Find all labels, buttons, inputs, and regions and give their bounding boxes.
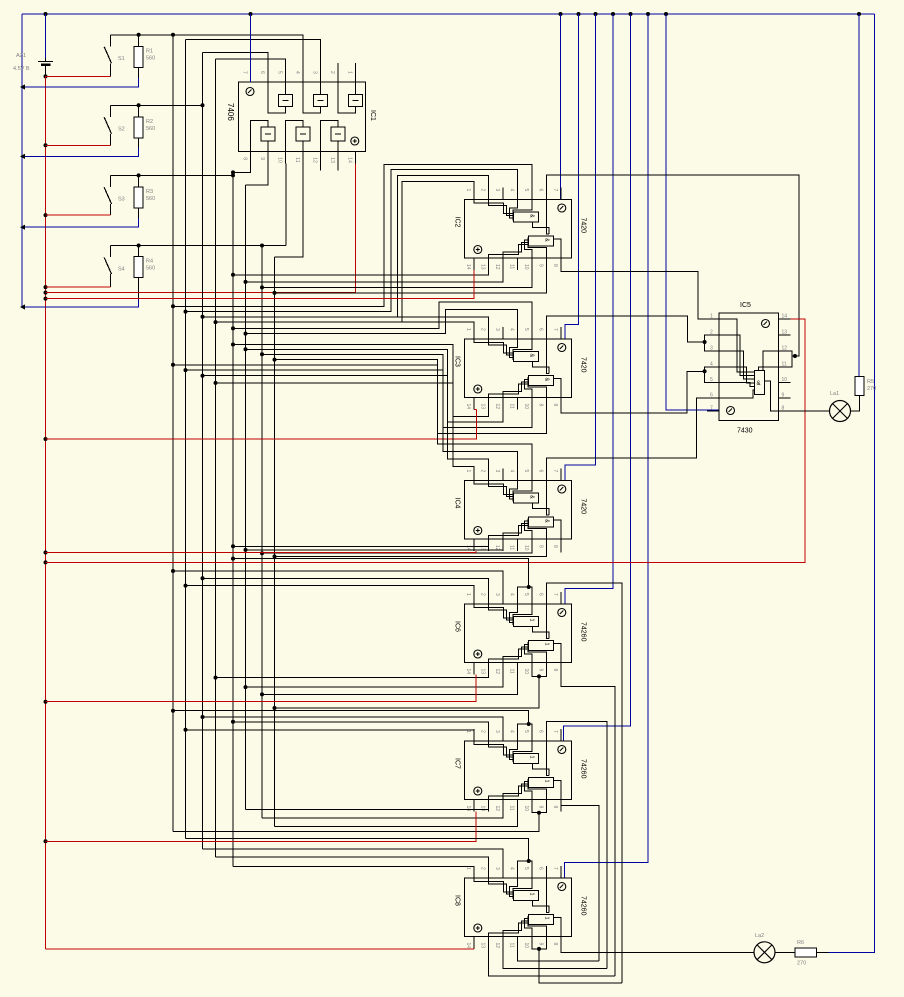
IC2 gate A (513, 212, 538, 222)
svg-text:2: 2 (479, 593, 485, 596)
wire: S3 red to battery bus (46, 214, 111, 216)
node: S4 rail junction W7 (260, 244, 264, 248)
svg-text:4: 4 (508, 470, 514, 473)
wire: IC4 bottom feed pin13 (233, 546, 488, 551)
svg-text:5: 5 (710, 377, 713, 383)
svg-text:12: 12 (494, 669, 500, 675)
svg-text:4: 4 (294, 71, 300, 74)
wire: IC1 pin8 jog to W5 (233, 163, 251, 172)
IC5 gate (755, 371, 765, 395)
wire: IC8 pins9/10 tie from IC6 pin8 (532, 948, 547, 950)
switch S1 (110, 35, 112, 47)
svg-text:&: & (528, 354, 534, 358)
wire: IC8 top feed pin1 (W5 end) (233, 867, 474, 879)
svg-text:S2: S2 (118, 126, 125, 132)
wire: IC8 pin14 red (473, 948, 475, 951)
svg-text:14: 14 (465, 404, 471, 410)
wire: IC7 bottom feed pin13 (W6 end) (246, 810, 489, 812)
IC1 power markers (246, 88, 254, 96)
wire: IC8 top feed pin2 (W4 end) (216, 857, 489, 878)
node: S1 rail bundle junction (171, 33, 175, 37)
IC1 inverter (296, 127, 310, 141)
wire: red battery bus vertical (45, 76, 47, 949)
wire: IC2 top feed 3 (W3) extends to IC3 pin2 (203, 176, 489, 317)
wire: IC6 bottom feed pin11 (262, 675, 517, 695)
svg-text:1: 1 (543, 780, 549, 783)
wire: R5 to La1 (851, 396, 860, 412)
resistor R2 (138, 105, 140, 117)
IC8 power markers (558, 883, 566, 891)
wire: R4 bottom blue return (22, 298, 139, 307)
svg-text:12: 12 (494, 806, 500, 812)
svg-text:1: 1 (465, 470, 471, 473)
svg-text:7: 7 (242, 71, 248, 74)
svg-text:13: 13 (479, 806, 485, 812)
IC2 gate B (528, 236, 553, 246)
svg-text:1: 1 (465, 867, 471, 870)
svg-text:10: 10 (523, 404, 529, 410)
wire: IC2 top feed 4 (W4) (216, 181, 474, 322)
wire: IC5 pins 11/12 tie (791, 351, 793, 367)
IC8 gate A (513, 891, 538, 901)
resistor R1 (138, 35, 140, 47)
svg-text:14: 14 (782, 314, 788, 320)
wire: IC4 top feed pin5 (173, 365, 532, 481)
IC6 power markers (558, 609, 566, 617)
wire: red bottom run to IC8 pin14 (46, 948, 474, 950)
svg-text:1: 1 (528, 756, 534, 759)
svg-text:&: & (528, 214, 534, 218)
svg-text:12: 12 (312, 157, 318, 163)
svg-text:8: 8 (782, 406, 785, 412)
wire: IC2 pin14 red (46, 270, 474, 299)
svg-text:1: 1 (543, 643, 549, 646)
wire: IC3 bottom feed pin12 (246, 349, 503, 422)
svg-text:IC5: IC5 (740, 302, 751, 309)
svg-text:1: 1 (710, 314, 713, 320)
wire: bundle W8 (274, 257, 276, 827)
wire: IC2 bottom feed pin9 to W8 (275, 270, 547, 293)
svg-text:6: 6 (537, 867, 543, 870)
node: S2 rail junction W3 (201, 103, 205, 107)
svg-text:4: 4 (508, 730, 514, 733)
svg-text:11: 11 (782, 362, 787, 368)
node: blue bus junction (20, 154, 25, 159)
wire: IC7 top feed pin2 (233, 722, 488, 741)
IC IC1 7406 body (239, 82, 366, 151)
svg-text:6: 6 (537, 593, 543, 596)
IC5 pin stubs (707, 319, 791, 411)
node: S3 rail junction W5 (231, 173, 235, 177)
wire: IC1 pin6 to W3 top (203, 52, 269, 70)
IC7 pin stubs (474, 729, 561, 812)
svg-text:8: 8 (552, 806, 558, 809)
svg-text:74260: 74260 (580, 896, 587, 916)
svg-text:11: 11 (508, 806, 514, 811)
svg-text:13: 13 (479, 264, 485, 270)
wire: IC3 top feed pin1 (tap of IC2 feed4) (402, 322, 474, 339)
switch S3 (110, 175, 112, 187)
wire: blue bus 7 to IC5 pin7 (666, 14, 719, 410)
svg-text:La1: La1 (830, 391, 839, 397)
IC8 pin numbers (465, 867, 558, 948)
wire: IC2 top feed 2 (W2) (186, 170, 518, 312)
svg-text:10: 10 (277, 157, 283, 163)
svg-text:13: 13 (782, 330, 788, 336)
svg-text:14: 14 (465, 264, 471, 270)
wire: IC4 top feed pin4 (186, 370, 518, 480)
wire: blue bus 2 to IC3 pin7 (565, 14, 579, 339)
wire: blue bus 1 to IC2 pin7 (560, 14, 562, 200)
svg-text:S4: S4 (118, 267, 125, 273)
wire: IC3 top feed pin5 (from W5 line) (233, 302, 532, 339)
svg-text:560: 560 (146, 196, 155, 202)
node: blue bus junction (20, 84, 25, 89)
svg-text:5: 5 (523, 189, 529, 192)
svg-text:AZ1: AZ1 (16, 53, 26, 59)
svg-text:9: 9 (537, 806, 543, 809)
wire: IC3 bottom feed pin9 (275, 360, 547, 434)
node: R3 top junction (137, 173, 141, 177)
svg-text:6: 6 (537, 328, 543, 331)
IC6 gate B (528, 641, 553, 651)
svg-text:&: & (757, 381, 761, 387)
svg-text:6: 6 (537, 189, 543, 192)
svg-text:4.5V B: 4.5V B (13, 66, 30, 72)
svg-text:7430: 7430 (737, 428, 753, 435)
IC2 pin numbers (465, 189, 558, 270)
wire: S4 red to battery bus (46, 286, 111, 288)
wire: bundle W6 (245, 185, 247, 810)
wire: R3 bottom blue return (22, 218, 139, 227)
IC7 pin numbers (465, 730, 558, 811)
IC4 pin stubs (474, 469, 561, 552)
svg-text:5: 5 (523, 593, 529, 596)
IC7 gate A (513, 754, 538, 764)
IC1 inverter (349, 95, 363, 107)
wire: blue far right bus to R6 (829, 14, 875, 952)
IC3 gate A (513, 352, 538, 362)
resistor R5 (855, 376, 864, 395)
svg-text:3: 3 (494, 730, 500, 733)
svg-text:9: 9 (259, 157, 265, 160)
wire: IC8 bottom feed pin12 from IC7 pin6 (503, 949, 607, 969)
IC1 inverter (261, 127, 275, 141)
svg-text:12: 12 (494, 404, 500, 410)
svg-text:3: 3 (494, 189, 500, 192)
svg-text:7: 7 (552, 470, 558, 473)
svg-text:12: 12 (494, 943, 500, 949)
IC8 pin stubs (474, 866, 561, 949)
wire: IC5 pin8 to lamp La1 (791, 410, 830, 412)
wire: IC6 pins4/5 tie feed (517, 587, 532, 592)
wire: IC8 pin8 output to La2 (561, 949, 754, 953)
IC5 power markers (762, 320, 770, 328)
wire: IC2 pin6 output loop to IC5 pins 11/12 (546, 175, 799, 356)
svg-text:3: 3 (710, 346, 713, 352)
lamp La2 (754, 942, 775, 963)
svg-text:12: 12 (494, 264, 500, 270)
IC1 pin stubs (251, 63, 356, 170)
svg-text:1: 1 (465, 730, 471, 733)
wire: IC7 pin6 output loop (546, 722, 607, 969)
wire: bundle W7 (261, 246, 263, 819)
svg-text:IC1: IC1 (369, 110, 376, 121)
node: blue bus junction (20, 225, 25, 230)
svg-text:10: 10 (523, 943, 529, 949)
svg-text:4: 4 (508, 189, 514, 192)
wire: IC3 top feed pin2 (tap of IC2 feed3) (398, 317, 489, 339)
IC1 inverter (314, 95, 328, 107)
wire: IC7 pin14 red (46, 812, 477, 842)
wire: IC1 pin5 to W4 top (216, 59, 286, 70)
svg-text:8: 8 (552, 545, 558, 548)
svg-text:S3: S3 (118, 196, 125, 202)
svg-text:R1: R1 (146, 49, 153, 55)
svg-text:IC7: IC7 (454, 758, 461, 769)
svg-text:12: 12 (782, 346, 788, 352)
svg-text:2: 2 (479, 730, 485, 733)
svg-text:4: 4 (508, 328, 514, 331)
svg-text:&: & (528, 495, 534, 499)
svg-text:8: 8 (552, 404, 558, 407)
wire: blue bus 6 to IC8 pin7 (565, 14, 648, 878)
wire: blue bus 3 to IC4 pin7 (565, 14, 596, 481)
wire: IC3 top feed pin4 (from W6 line) (246, 310, 518, 339)
wire: IC1 pin10 down to S4 rail (285, 163, 287, 245)
IC IC6 74260 body (464, 604, 571, 663)
node: R2 top junction (137, 103, 141, 107)
IC IC5 7430 body (719, 313, 779, 421)
svg-text:3: 3 (494, 470, 500, 473)
svg-text:4: 4 (508, 593, 514, 596)
IC IC8 74260 body (464, 878, 571, 937)
svg-text:R3: R3 (146, 189, 153, 195)
svg-text:5: 5 (523, 730, 529, 733)
wire: La2 to R6 (775, 951, 795, 953)
wire: IC1 pin11 jog to W8 (275, 163, 304, 257)
node: R1 top junction (137, 33, 141, 37)
wire: IC3 pin6 output to IC5 pins 2/3 (546, 316, 704, 342)
svg-text:9: 9 (537, 545, 543, 548)
IC7 gate B (528, 778, 553, 788)
svg-text:S1: S1 (118, 56, 125, 62)
svg-text:5: 5 (523, 328, 529, 331)
wire: IC1 pin9 jog to W6 (246, 163, 269, 185)
resistor R3 (138, 175, 140, 187)
svg-text:7: 7 (710, 406, 713, 412)
svg-text:9: 9 (782, 393, 785, 399)
svg-text:7420: 7420 (580, 499, 587, 515)
wire: IC7 pins9/10 tie (W1 end) (532, 812, 547, 813)
battery AZ1 (45, 14, 47, 58)
svg-text:10: 10 (523, 806, 529, 812)
wire: S2 rail extension to W3 (111, 104, 203, 106)
wire: IC6 bottom feed pin12 (246, 675, 503, 688)
svg-text:7420: 7420 (580, 218, 587, 234)
svg-text:7: 7 (552, 593, 558, 596)
svg-text:&: & (543, 378, 549, 382)
wire: IC7 top feed pin3 (203, 717, 503, 741)
wire: IC8 pins4/5 tie feed (W2 end) (517, 861, 532, 866)
wire: IC2 pin8 output to IC5 pin1 (561, 270, 719, 319)
wire: bundle W4 (215, 59, 217, 857)
svg-text:74260: 74260 (580, 622, 587, 642)
IC4 gate B (528, 517, 553, 527)
wire: R6 to blue bus (817, 951, 829, 953)
IC IC2 7420 body (464, 200, 571, 259)
wire: IC4 bottom feed pin10 (262, 551, 532, 553)
wire: IC6 bottom feed pin13 (216, 675, 489, 678)
wire: left blue bus vertical (21, 14, 23, 307)
IC3 pin stubs (474, 327, 561, 410)
wire: IC6 top feed pin2 (203, 578, 489, 604)
svg-text:3: 3 (494, 593, 500, 596)
IC5 gate input nest (719, 319, 755, 372)
node: R4 top junction (137, 244, 141, 248)
svg-text:R4: R4 (146, 259, 153, 265)
wire: IC8 bottom feed pin11 from IC7 pin8 (517, 949, 599, 961)
svg-text:7: 7 (552, 189, 558, 192)
svg-text:2: 2 (710, 330, 713, 336)
wire: IC6 pins9/10 tie to W8 (532, 675, 547, 677)
svg-text:9: 9 (537, 943, 543, 946)
node: blue bus junction (20, 304, 25, 309)
IC5 gate output to pin8 (765, 381, 779, 411)
wire: R2 bottom blue return (22, 147, 139, 156)
svg-text:9: 9 (537, 404, 543, 407)
svg-text:6: 6 (710, 393, 713, 399)
wire: IC6 pin14 red (46, 675, 477, 702)
svg-text:4: 4 (710, 362, 713, 368)
wire: S3 rail extension to W5 (111, 174, 234, 176)
svg-text:11: 11 (508, 545, 514, 550)
wire: blue bus 4 to IC6 pin7 (565, 14, 613, 604)
IC6 pin stubs (474, 592, 561, 675)
IC6 gate A (513, 617, 538, 627)
svg-text:3: 3 (312, 71, 318, 74)
svg-text:IC6: IC6 (454, 621, 461, 632)
wire: IC2 bottom feed pin13 to W5 (233, 270, 488, 275)
svg-text:1: 1 (528, 619, 534, 622)
switch S2 (110, 105, 112, 117)
svg-text:7420: 7420 (580, 357, 587, 373)
svg-text:560: 560 (146, 56, 155, 62)
wire: IC2 bottom feed pin12 to W6 (246, 270, 503, 282)
svg-text:1: 1 (347, 71, 353, 74)
wire: bundle W3 (202, 52, 204, 849)
svg-text:13: 13 (479, 943, 485, 949)
IC5 gate inputs from pins 11/12 (763, 351, 779, 371)
svg-text:8: 8 (552, 943, 558, 946)
IC1 inverter (331, 127, 345, 141)
wire: IC2 top feed 1 (W1) (173, 164, 532, 306)
wire: IC5 pins 2/3 tie (705, 335, 707, 351)
svg-text:7: 7 (552, 730, 558, 733)
IC7 power markers (558, 746, 566, 754)
wire: IC7 pin8 output loop (561, 806, 599, 961)
svg-text:&: & (543, 519, 549, 523)
svg-text:10: 10 (523, 669, 529, 675)
svg-text:13: 13 (329, 157, 335, 163)
svg-text:IC8: IC8 (454, 895, 461, 906)
wire: S2 red to battery bus (46, 144, 111, 146)
IC3 pin numbers (465, 328, 558, 409)
IC4 gate A (513, 493, 538, 503)
wire: IC3 bottom feed pin10 (262, 354, 532, 427)
IC1 pin numbers (242, 71, 353, 163)
svg-text:4: 4 (508, 867, 514, 870)
resistor R4 (138, 246, 140, 257)
svg-text:9: 9 (537, 264, 543, 267)
svg-text:13: 13 (479, 669, 485, 675)
svg-text:8: 8 (552, 264, 558, 267)
svg-text:5: 5 (277, 71, 283, 74)
IC2 power markers (558, 204, 566, 212)
wire: IC4 pin6 output to IC5 pin6 (546, 398, 719, 469)
svg-text:1: 1 (543, 917, 549, 920)
IC IC7 74260 body (464, 741, 571, 800)
resistor R6 (795, 948, 817, 957)
IC2 pin stubs (474, 188, 561, 271)
svg-text:560: 560 (146, 126, 155, 132)
wire: IC4 top feed pin2 (203, 376, 489, 481)
wire: bundle W1 (S1) (172, 35, 174, 832)
wire: IC4 top feed pin1 (216, 383, 474, 481)
svg-text:5: 5 (523, 867, 529, 870)
wire: IC3 bottom feed pin13 (233, 345, 488, 417)
svg-text:La2: La2 (755, 933, 764, 939)
wire: IC7 top feed pin1 (186, 730, 474, 741)
svg-text:IC2: IC2 (454, 217, 461, 228)
svg-text:14: 14 (347, 157, 353, 163)
IC4 power markers (558, 485, 566, 493)
svg-text:6: 6 (259, 71, 265, 74)
svg-text:R2: R2 (146, 119, 153, 125)
IC IC3 7420 body (464, 339, 571, 398)
wire: IC6 pin6 output loop (546, 583, 622, 983)
wire: IC6 pin8 output loop (561, 675, 615, 977)
svg-text:&: & (543, 238, 549, 242)
wire: IC4 bottom feed pin9 (275, 551, 547, 557)
svg-text:2: 2 (329, 71, 335, 74)
svg-text:74260: 74260 (580, 759, 587, 779)
svg-text:2: 2 (479, 328, 485, 331)
svg-text:8: 8 (242, 157, 248, 160)
wire: S1 rail to IC1 pin4 (111, 35, 304, 70)
svg-text:2: 2 (479, 189, 485, 192)
wire: IC3 pin14 red (474, 409, 477, 411)
wire: IC4 pin14 red (46, 551, 476, 553)
wire: S1 red to battery bus (46, 75, 111, 77)
wire: IC7 bottom feed pin11 (W8 end) (275, 812, 518, 827)
svg-text:11: 11 (508, 669, 514, 674)
svg-text:1: 1 (465, 593, 471, 596)
node: battery plus junction (44, 74, 48, 78)
IC1 pin7 blue from top rail (250, 14, 252, 82)
svg-text:7: 7 (552, 328, 558, 331)
svg-text:1: 1 (465, 189, 471, 192)
svg-text:3: 3 (494, 867, 500, 870)
svg-text:9: 9 (537, 669, 543, 672)
svg-text:6: 6 (537, 470, 543, 473)
wire: IC2 bottom feed pin10 to W7 (262, 270, 532, 287)
svg-text:3: 3 (494, 328, 500, 331)
svg-text:2: 2 (479, 867, 485, 870)
IC1 inverter (279, 95, 293, 107)
IC3 power markers (558, 344, 566, 352)
switch S4 (110, 246, 112, 258)
